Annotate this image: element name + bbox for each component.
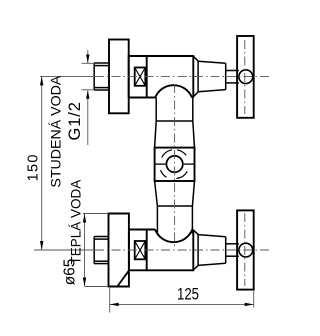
dimension line 150 [41, 76, 43, 250]
bottom bonnet step [193, 230, 198, 270]
bottom cross handle bar [237, 210, 254, 289]
bottom bonnet cone [198, 235, 226, 266]
outlet thread arc upper-left [162, 150, 172, 158]
top handle vertical centerline [244, 40, 246, 114]
svg-text:G1/2: G1/2 [66, 101, 84, 140]
top bonnet cone [198, 61, 226, 91]
outlet thread arc upper-right [177, 150, 186, 156]
extension line 125 right [253, 291, 255, 308]
bottom valve body outline [129, 230, 193, 271]
arrowhead 125 right [245, 303, 254, 306]
top elbow dome arc [155, 85, 192, 98]
arrowhead 150 bottom [40, 241, 43, 250]
bottom elbow dome arc [155, 229, 192, 242]
outlet thread arc lower-right [176, 171, 187, 178]
arrowhead o65 top [83, 214, 86, 223]
arrowhead 150 top [40, 76, 43, 85]
outlet port circle [166, 156, 182, 172]
extension line o65 top [83, 213, 109, 215]
bottom crossed seal box [135, 241, 146, 259]
top valve body joint line [146, 56, 148, 98]
dimension line 125 [110, 303, 254, 305]
top valve body bottom edge left of elbow dome [129, 97, 155, 99]
svg-text:TEPLÁ VODA: TEPLÁ VODA [69, 180, 84, 265]
top bonnet step [193, 56, 198, 97]
arrowhead G1/2 upper [86, 55, 89, 64]
svg-text:150: 150 [25, 153, 41, 181]
riser pipe upper section [155, 98, 195, 148]
top crossed seal box [135, 68, 146, 86]
extension line G1/2 bottom [82, 89, 95, 91]
arrowhead G1/2 lower [86, 90, 89, 99]
bottom wall flange (escutcheon, hot water inlet) [109, 214, 129, 287]
bottom axis centerline [95, 249, 269, 251]
top handle hub [239, 70, 253, 84]
bottom valve stem [226, 244, 239, 256]
top centerline extension [40, 75, 95, 77]
dimension line G1/2 upper shaft [87, 50, 89, 63]
bottom centerline extension [34, 249, 95, 251]
bottom handle hub [239, 243, 253, 257]
dimension line G1/2 lower shaft [87, 90, 89, 145]
bottom union nut (G1/2 inlet) [94, 237, 108, 264]
bottom flange chamfer diagonal [117, 271, 128, 287]
top valve stem [226, 71, 239, 83]
top union nut (G1/2 inlet) [94, 63, 108, 90]
bottom valve body top edge left of elbow dome [129, 229, 155, 231]
svg-text:125: 125 [177, 285, 199, 304]
shower outlet boss [155, 148, 195, 181]
dimension line o65 [84, 214, 86, 287]
arrowhead o65 bottom [83, 278, 86, 287]
top valve body outline [129, 56, 194, 98]
top wall flange (escutcheon, cold water inlet) [109, 40, 129, 114]
outlet thread arc lower-left [161, 170, 167, 177]
extension line o65 bottom [85, 286, 109, 288]
top cross handle bar [237, 36, 254, 118]
arrowhead 125 left [110, 303, 119, 306]
svg-text:ø65: ø65 [62, 259, 79, 286]
top axis centerline [95, 75, 269, 77]
riser vertical centerline [174, 84, 176, 246]
extension line 125 left [109, 288, 111, 313]
extension line G1/2 top [82, 62, 95, 64]
boss horizontal split lines [155, 163, 195, 165]
bottom valve body joint line [146, 230, 148, 271]
svg-text:STUDENÁ VODA: STUDENÁ VODA [48, 75, 65, 187]
riser pipe lower section [155, 181, 195, 234]
bottom handle vertical centerline [244, 213, 246, 286]
